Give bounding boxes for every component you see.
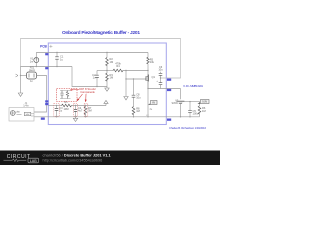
svg-text:1M: 1M — [136, 109, 140, 113]
wire top rail — [36, 52, 148, 54]
capacitor C3 branch — [56, 106, 58, 117]
RC inside dashed box — [60, 91, 71, 99]
port nubs on PCB border — [41, 53, 171, 121]
divider string R2 — [106, 53, 108, 58]
red arrow to box — [70, 89, 79, 92]
svg-text:PCB: PCB — [40, 44, 47, 48]
svg-text:Components: Components — [80, 90, 95, 94]
footer band — [0, 151, 220, 166]
flag 9V — [201, 100, 210, 104]
svg-text:3M: 3M — [88, 109, 92, 113]
transistor Q1 — [147, 75, 149, 82]
svg-text:1m: 1m — [30, 60, 33, 63]
svg-text:Q1: Q1 — [152, 75, 156, 79]
bottom ground rail — [34, 116, 200, 118]
resistor R8 branch — [132, 107, 135, 115]
svg-text:9.0V: 9.0V — [202, 101, 207, 104]
capacitor C8 branch — [133, 79, 135, 107]
ground below rail — [73, 117, 77, 122]
svg-text:9VDC: 9VDC — [172, 102, 179, 105]
svg-text:Onboard Piezo/Magnetic Buffer: Onboard Piezo/Magnetic Buffer - J201 — [62, 30, 140, 36]
wire battery branch — [181, 102, 200, 106]
svg-text:http://circuitlab.com/c/34554c: http://circuitlab.com/c/34554ca9b96 — [43, 158, 103, 162]
svg-text:Charles B. Richardson 1/30/201: Charles B. Richardson 1/30/2016 — [169, 126, 206, 130]
svg-text:10M: 10M — [63, 107, 68, 111]
current source I1 — [34, 58, 39, 63]
svg-text:LAB: LAB — [30, 159, 38, 163]
wire top loop net — [21, 39, 181, 79]
red dashed markers — [54, 103, 59, 116]
svg-text:10u: 10u — [158, 68, 163, 72]
ground gate — [124, 97, 128, 100]
svg-text:10u: 10u — [136, 96, 141, 100]
svg-text:piezo: piezo — [29, 69, 36, 72]
flag on source net — [151, 101, 158, 105]
ground left — [18, 93, 22, 96]
wire input net — [21, 66, 73, 68]
supply flag on mid rail — [104, 100, 108, 105]
wire gate rail — [97, 70, 113, 72]
svg-text:1M: 1M — [202, 109, 206, 113]
resistor R6 — [198, 106, 201, 114]
ground mid — [105, 87, 109, 92]
resistor R1 — [62, 104, 72, 107]
wire mid-left net — [72, 67, 107, 87]
svg-text:R1: R1 — [64, 100, 68, 104]
svg-text:charrich56 / Discrete Buffer J: charrich56 / Discrete Buffer J201 V1.1 — [43, 153, 112, 158]
capacitor C2 — [96, 71, 98, 87]
red arrow to C4 — [77, 94, 83, 101]
svg-text:100u: 100u — [193, 112, 199, 116]
svg-text:V: JD - MMBFJ201: V: JD - MMBFJ201 — [183, 84, 203, 88]
mid rail — [48, 105, 61, 107]
wire left vertical — [20, 67, 22, 94]
wire gate branch — [126, 71, 145, 97]
junction dots — [20, 52, 191, 118]
capacitor C1 — [56, 53, 58, 67]
svg-text:10k: 10k — [150, 60, 155, 64]
PCB annotation box — [48, 43, 166, 125]
resistor R4 horizontal — [113, 69, 123, 72]
net flag left of piezo — [16, 74, 19, 77]
capacitor C7 polarized output — [160, 82, 162, 89]
red arrow to R7 — [85, 94, 87, 102]
svg-text:6V: 6V — [152, 102, 155, 105]
capacitor C5 — [188, 110, 192, 112]
svg-text:4u7: 4u7 — [78, 109, 83, 113]
divider string R3 — [106, 73, 109, 81]
battery V2 — [180, 89, 182, 100]
resistor R7 branch — [85, 105, 87, 108]
svg-text:470k: 470k — [115, 62, 121, 66]
wire source net — [147, 82, 149, 117]
red dashed box — [57, 89, 78, 102]
svg-text:CIRCUIT: CIRCUIT — [7, 154, 31, 160]
svg-text:1/4in: 1/4in — [23, 104, 29, 107]
svg-text:1M: 1M — [110, 76, 114, 80]
capacitor C4 branch — [75, 106, 77, 117]
resistor R5 drain — [147, 53, 149, 58]
svg-text:1M: 1M — [110, 60, 114, 64]
